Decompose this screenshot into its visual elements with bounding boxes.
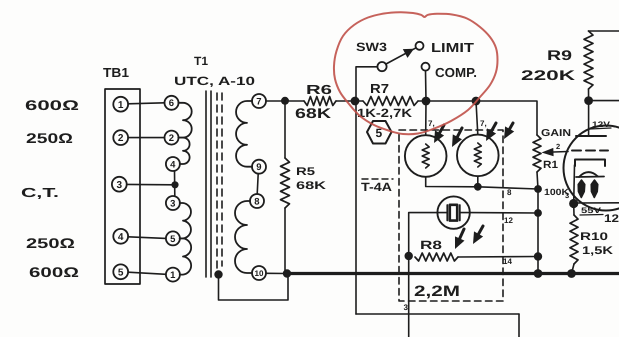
T1 primary terminal 3 xyxy=(166,196,180,210)
svg-text:R7: R7 xyxy=(370,81,389,96)
photocell V1 element xyxy=(422,144,429,168)
ground bus (thick) xyxy=(286,272,619,275)
node R8 right dot xyxy=(534,252,542,260)
T1 core line left xyxy=(205,91,207,277)
lamp B1 left lead xyxy=(439,212,448,214)
tube V3 grid (dashed) xyxy=(572,150,608,152)
T1 core line right xyxy=(210,91,212,277)
wire TB1-2 to T1-2 xyxy=(128,137,164,139)
switch SW3 arm arrowhead xyxy=(403,49,414,58)
svg-text:68K: 68K xyxy=(295,105,331,121)
resistor R10 xyxy=(570,215,578,264)
svg-text:3: 3 xyxy=(565,191,569,200)
TB1 terminal 3 xyxy=(112,177,127,192)
wire shield to ground bus (U link) xyxy=(219,274,289,300)
svg-text:8: 8 xyxy=(254,196,259,207)
wire cathode node to R10 xyxy=(573,204,575,216)
wire R1 bottom to 100K node xyxy=(537,172,538,189)
svg-text:LIMIT: LIMIT xyxy=(431,40,474,55)
T1 secondary terminal 9 xyxy=(252,160,266,174)
bottom rail wire xyxy=(356,313,519,315)
svg-text:R9: R9 xyxy=(547,47,572,63)
svg-text:600Ω: 600Ω xyxy=(29,264,79,280)
svg-text:600Ω: 600Ω xyxy=(25,97,79,113)
svg-text:55V: 55V xyxy=(581,206,602,215)
T1 primary terminal 5 xyxy=(166,231,180,245)
tube V3 envelope xyxy=(564,126,619,211)
resistor R6 xyxy=(304,97,336,106)
contact COMP xyxy=(422,63,430,71)
wire R10 bottom to bus xyxy=(572,264,575,274)
T1 secondary terminal 8 xyxy=(250,194,264,208)
svg-text:1: 1 xyxy=(118,100,124,111)
wire T1-10 to bus node xyxy=(266,272,286,274)
svg-text:7,: 7, xyxy=(480,119,487,128)
T1 primary terminal 2 xyxy=(165,131,179,145)
svg-text:10: 10 xyxy=(255,269,265,278)
svg-text:220K: 220K xyxy=(521,67,575,83)
wire plate node to right edge xyxy=(589,100,619,102)
wire plate node down to plate xyxy=(588,101,590,136)
wire T1-4 to T1-3 via CT node xyxy=(174,171,176,196)
svg-text:12: 12 xyxy=(604,213,619,225)
T1 primary winding 6-2 xyxy=(178,103,191,138)
wire R6-node down to R5 xyxy=(284,101,286,158)
svg-text:3: 3 xyxy=(404,303,409,312)
wire R7 to COMP node xyxy=(418,100,426,102)
svg-text:2,2M: 2,2M xyxy=(414,283,460,300)
wire right photocell bottom xyxy=(477,176,479,187)
underline 55V xyxy=(580,214,603,217)
wire R9 top to right edge xyxy=(589,30,619,32)
svg-text:R1: R1 xyxy=(543,159,558,171)
svg-text:T-4A: T-4A xyxy=(361,180,392,194)
wire SW3 common to left xyxy=(356,67,377,101)
svg-text:C,T.: C,T. xyxy=(21,185,59,200)
TB1 terminal 4 xyxy=(113,229,128,244)
TB1 terminal 5 xyxy=(113,264,128,279)
resistor R7 xyxy=(363,97,418,106)
T1 primary winding 2-4 xyxy=(178,138,189,164)
svg-text:7: 7 xyxy=(256,96,261,107)
node CT junction dot xyxy=(171,181,178,188)
svg-text:2: 2 xyxy=(118,133,124,144)
node shield bottom dot xyxy=(214,270,222,278)
switch SW3 common contact xyxy=(377,62,386,71)
node bus dot below R10 xyxy=(567,269,576,278)
wire T1-7 to R6 node xyxy=(266,100,304,102)
light arrow A3 xyxy=(486,128,496,141)
node R6 left junction xyxy=(281,97,289,105)
wire R5 to bus xyxy=(284,208,286,272)
node COMP junction xyxy=(422,97,431,106)
svg-text:COMP.: COMP. xyxy=(435,65,477,80)
svg-text:T1: T1 xyxy=(194,54,208,68)
light arrow A5 xyxy=(455,236,465,249)
wire R9 bottom to plate node xyxy=(588,89,590,101)
wire cathode down to cathode node xyxy=(573,165,576,204)
lamp B1 left bar xyxy=(446,205,448,221)
T1 secondary terminal 7 xyxy=(252,94,266,108)
resistor R9 xyxy=(584,31,593,89)
underline 12V xyxy=(590,128,611,129)
wire right photocell node down xyxy=(476,101,478,135)
heater lead arrow right xyxy=(591,180,598,198)
light arrow A4 xyxy=(504,126,514,139)
photocell V2 element xyxy=(474,143,481,167)
svg-text:4: 4 xyxy=(170,159,176,170)
node photocell bottoms xyxy=(474,183,482,191)
svg-text:UTC, A-10: UTC, A-10 xyxy=(174,74,255,88)
svg-text:14: 14 xyxy=(503,257,512,266)
light arrow A2 xyxy=(452,134,462,147)
T1 secondary winding 8-10 xyxy=(235,201,252,273)
wire 100K node chain down to bus xyxy=(537,189,539,274)
wire photocell bottoms to 100K node, pin 8 xyxy=(478,187,538,189)
optical module T4A dashed box xyxy=(399,130,503,301)
svg-text:R6: R6 xyxy=(306,82,332,97)
T1 shield dashed line 1 xyxy=(216,93,218,271)
tube V3 plate xyxy=(576,135,606,137)
label T-4A overline xyxy=(362,178,393,180)
node bus left dot xyxy=(283,269,291,277)
svg-text:R10: R10 xyxy=(580,231,608,243)
T1 secondary terminal 10 xyxy=(252,266,266,280)
svg-text:8: 8 xyxy=(507,188,512,197)
svg-text:4: 4 xyxy=(118,232,124,243)
T1 secondary winding 7-9 xyxy=(236,101,252,167)
hexagon badge 5 xyxy=(367,121,392,144)
lamp B1 element (dark rect) xyxy=(450,205,457,221)
wire TB1-4 to T1-5 xyxy=(128,237,166,239)
node R7 left junction xyxy=(351,97,360,106)
svg-text:1: 1 xyxy=(170,270,176,281)
svg-text:7,: 7, xyxy=(428,119,435,128)
svg-text:1K-2,7K: 1K-2,7K xyxy=(357,106,412,120)
node bus dot below R8 xyxy=(534,269,543,278)
switch SW3 arm xyxy=(386,48,416,64)
wire TB1-3 to CT node xyxy=(127,183,174,185)
svg-text:5: 5 xyxy=(118,267,124,278)
wire lamp right to 12 node xyxy=(470,212,538,214)
node cathode dot xyxy=(569,199,578,208)
node lamp right dot xyxy=(534,209,542,217)
svg-text:R5: R5 xyxy=(296,166,315,178)
wire R6 to R7 node xyxy=(336,100,363,102)
T1 primary terminal 1 xyxy=(166,268,180,282)
svg-text:250Ω: 250Ω xyxy=(26,235,75,251)
wire COMP node to photocell node xyxy=(426,100,476,102)
heater lead arrow left xyxy=(578,180,585,198)
svg-text:3: 3 xyxy=(117,180,123,191)
resistor R8 xyxy=(415,253,458,261)
wire COMP contact down to node xyxy=(425,71,428,101)
tube V3 heater baseline xyxy=(576,176,604,179)
lamp B1 right bar xyxy=(459,205,461,221)
svg-text:12: 12 xyxy=(504,216,513,225)
potentiometer R1 xyxy=(533,135,541,172)
terminal block TB1 outline xyxy=(105,89,140,284)
lamp B1 right lead xyxy=(460,212,469,214)
wire cathode node to right edge xyxy=(574,202,619,204)
wire bottom rail down right xyxy=(518,314,520,337)
node R8 left dot xyxy=(405,252,413,260)
wire COMP node to left photocell xyxy=(425,101,427,135)
svg-text:250Ω: 250Ω xyxy=(26,130,73,146)
svg-text:GAIN: GAIN xyxy=(541,128,571,139)
wire TB1-1 to T1-6 xyxy=(128,103,164,104)
svg-text:2: 2 xyxy=(556,142,560,151)
wire pin3 down through bus to bottom xyxy=(408,256,410,337)
wire left photocell bottom xyxy=(426,177,478,187)
wire photocell node to R1 corner xyxy=(476,101,537,135)
svg-text:6: 6 xyxy=(169,98,174,109)
svg-text:TB1: TB1 xyxy=(103,65,129,80)
node right photocell junction xyxy=(472,97,481,106)
T1 primary terminal 4 xyxy=(166,157,180,171)
R1 wiper arrow xyxy=(542,148,554,156)
wire TB1-5 to T1-1 xyxy=(128,272,166,274)
svg-text:3: 3 xyxy=(170,198,175,209)
svg-text:68K: 68K xyxy=(296,180,326,192)
svg-text:1,5K: 1,5K xyxy=(582,245,613,257)
svg-text:SW3: SW3 xyxy=(356,40,387,54)
contact LIMIT xyxy=(416,42,424,50)
light arrow A1 xyxy=(434,130,444,143)
node 100K dot xyxy=(534,185,542,193)
resistor R5 xyxy=(281,158,290,208)
T1 primary winding 5-1 xyxy=(180,238,191,274)
T1 primary winding 3-5 xyxy=(180,203,191,238)
tube V3 heater hump xyxy=(579,172,598,177)
T1 shield dashed line 2 xyxy=(221,93,223,266)
TB1 terminal 2 xyxy=(113,130,128,145)
node plate supply dot xyxy=(584,96,593,105)
wire lamp left to pin3 column xyxy=(409,213,438,252)
svg-text:R8: R8 xyxy=(420,238,442,252)
TB1 terminal 1 xyxy=(113,97,128,112)
lamp B1 envelope xyxy=(437,196,469,228)
photocell V2 right envelope xyxy=(457,135,499,177)
svg-text:2: 2 xyxy=(169,133,174,144)
wire R7-left node down to bottom rail xyxy=(355,101,357,314)
annotation red circle around SW3 xyxy=(334,12,498,134)
tube V3 cathode xyxy=(575,160,605,167)
photocell V1 left envelope xyxy=(405,135,447,177)
wire T1-9 to T1-8 xyxy=(257,174,258,194)
T1 primary terminal 6 xyxy=(165,96,179,110)
svg-text:9: 9 xyxy=(256,162,261,173)
svg-text:5: 5 xyxy=(170,234,176,245)
wire R8 right to pin14 node xyxy=(458,256,538,259)
light arrow A6 xyxy=(473,231,483,244)
